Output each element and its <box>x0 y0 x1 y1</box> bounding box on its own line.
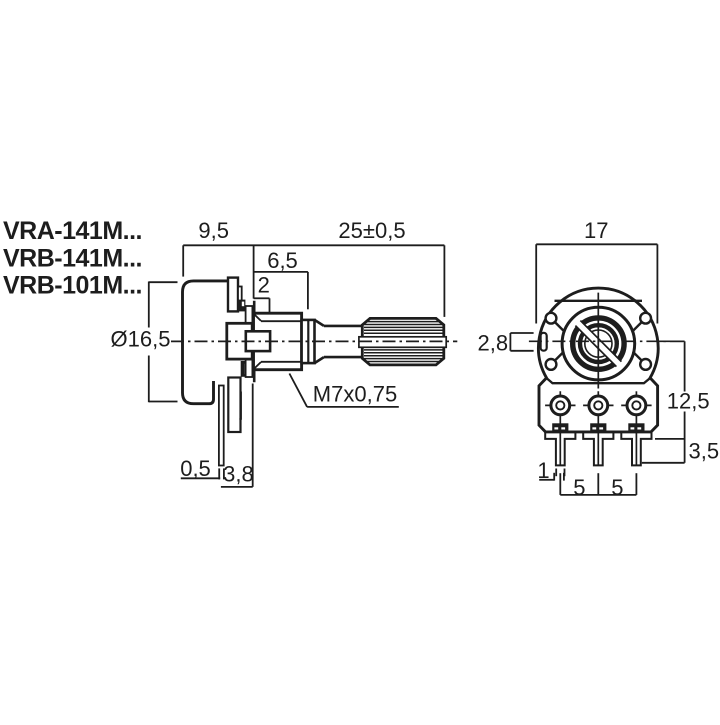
body can <box>183 281 229 404</box>
dimension 2,8 <box>510 333 533 351</box>
dimension 12,5 <box>642 341 685 463</box>
svg-text:VRB-101M...: VRB-101M... <box>3 271 142 299</box>
terminal lug 2 <box>583 391 613 466</box>
svg-text:0,5: 0,5 <box>180 456 211 481</box>
body outline front <box>538 288 658 432</box>
bushing plate ring bottom <box>246 354 253 378</box>
hole upper right <box>640 313 651 324</box>
threaded bushing M7 <box>254 313 302 370</box>
dimension 3,8 <box>221 384 253 487</box>
dimension 2 <box>254 298 270 324</box>
thread chamfer top <box>254 314 261 321</box>
shaft ring inner <box>580 325 617 362</box>
front vertical center line <box>597 293 599 389</box>
svg-text:VRA-141M...: VRA-141M... <box>3 217 142 245</box>
svg-text:12,5: 12,5 <box>667 388 710 413</box>
shaft chamfer top <box>315 320 324 326</box>
top chord line <box>555 300 643 302</box>
leg 1 <box>545 432 575 466</box>
anchor tab nested step <box>239 392 241 420</box>
dimension 6,5 <box>254 272 308 309</box>
dimension 9,5 and 25±0,5 main line <box>183 245 444 317</box>
cover cluster bottom <box>241 361 249 377</box>
thread chamfer bottom <box>254 362 261 369</box>
spoke lower left <box>555 352 564 361</box>
spoke upper left <box>555 322 564 331</box>
svg-text:25±0,5: 25±0,5 <box>338 218 405 243</box>
svg-text:Ø16,5: Ø16,5 <box>111 327 171 352</box>
mounting face line <box>253 301 256 383</box>
terminal slot black 1 <box>552 423 644 432</box>
leg 3 <box>621 432 651 466</box>
svg-text:9,5: 9,5 <box>198 218 229 243</box>
side view center line <box>171 340 457 342</box>
dimension 0,5 <box>181 468 224 479</box>
svg-text:17: 17 <box>584 218 608 243</box>
terminal slot notches <box>554 427 641 429</box>
center boss <box>246 331 270 351</box>
spoke lower right <box>633 352 642 361</box>
bushing circle <box>562 307 635 380</box>
svg-text:1: 1 <box>537 458 549 483</box>
collar divider <box>307 320 309 363</box>
svg-text:2,8: 2,8 <box>478 330 509 355</box>
shaft bottom line <box>324 356 362 359</box>
inner circle <box>585 330 612 357</box>
svg-text:2: 2 <box>258 272 270 297</box>
shaft top line <box>324 325 362 328</box>
dimension 5 5 <box>560 473 636 495</box>
svg-text:5: 5 <box>611 475 623 500</box>
front horizontal center line <box>529 340 686 342</box>
spoke upper right <box>633 322 642 331</box>
cover tab top <box>228 278 238 312</box>
dimension 1 <box>539 469 564 481</box>
knurl lines top <box>364 322 443 334</box>
cover step top <box>238 287 242 308</box>
dimension 17 <box>536 244 657 323</box>
terminal tab wide (3,8 anchor) <box>228 378 240 433</box>
svg-text:M7x0,75: M7x0,75 <box>313 381 397 406</box>
shaft slot side view <box>359 337 446 348</box>
thread root line top <box>261 320 301 322</box>
svg-text:6,5: 6,5 <box>267 248 298 273</box>
leg 2 <box>583 432 613 466</box>
svg-text:3,5: 3,5 <box>689 439 720 464</box>
knurl lines bottom <box>364 350 443 362</box>
hole lower left <box>546 359 557 370</box>
svg-text:5: 5 <box>573 475 585 500</box>
cover cluster top <box>238 300 246 312</box>
svg-text:VRB-141M...: VRB-141M... <box>3 244 142 272</box>
bushing plate ring top <box>246 306 253 330</box>
terminal tab thin (0,5) <box>219 386 224 466</box>
dimension Ø16,5 <box>149 282 178 403</box>
hole lower right <box>640 359 651 370</box>
leader M7x0,75 <box>289 374 398 407</box>
slot band white <box>575 321 621 367</box>
hole upper left <box>546 313 557 324</box>
block seam <box>547 378 650 383</box>
anti-rotation tab slot capsule <box>541 333 547 351</box>
collar rings <box>302 320 315 363</box>
shaft chamfer bottom <box>315 357 324 363</box>
thread root line bottom <box>261 361 301 363</box>
svg-text:3,8: 3,8 <box>223 462 254 487</box>
shaft ring outer <box>573 318 624 369</box>
terminal lug 1 <box>545 391 575 466</box>
knurled shaft end <box>362 318 444 365</box>
terminal lug 3 <box>621 391 651 466</box>
flange plate <box>227 323 252 359</box>
